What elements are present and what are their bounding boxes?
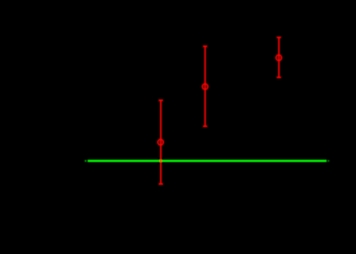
error bar 2 bbox=[202, 46, 208, 126]
error bar 1 bbox=[158, 100, 164, 184]
green reference line bbox=[85, 160, 329, 162]
error bar 3 bbox=[276, 37, 282, 77]
